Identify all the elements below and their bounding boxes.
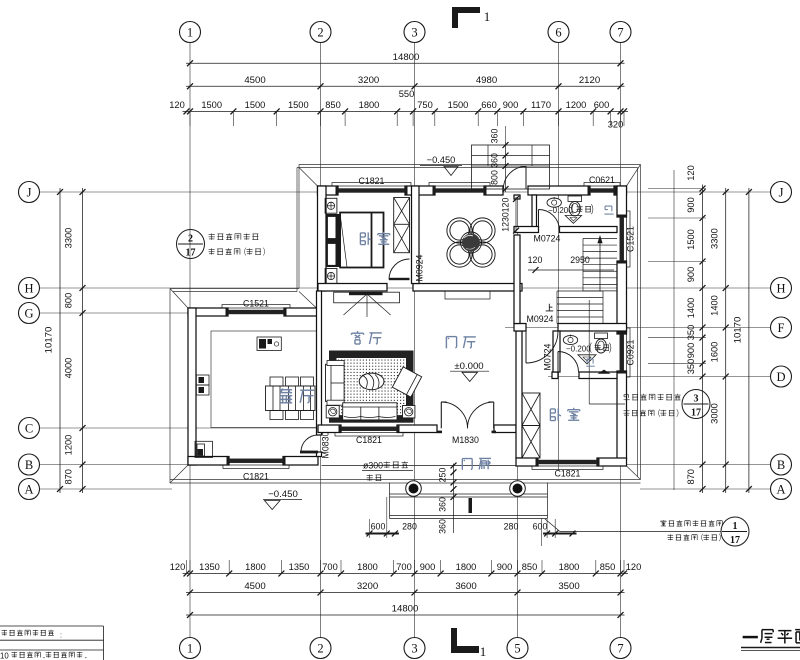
svg-text:120: 120 [528,255,543,265]
svg-text:900: 900 [503,100,519,110]
svg-text:320: 320 [608,120,624,130]
svg-text:850: 850 [522,562,538,572]
svg-text:17: 17 [730,535,740,546]
svg-text:1800: 1800 [245,562,266,572]
svg-text:360: 360 [490,153,500,168]
svg-text:B: B [25,458,33,472]
svg-text:3200: 3200 [357,581,378,592]
svg-text:3: 3 [411,26,417,40]
svg-text:2: 2 [317,642,323,656]
svg-text:4980: 4980 [476,75,497,86]
svg-text:J: J [779,186,784,200]
svg-text:3000: 3000 [710,403,720,424]
svg-text:C1521: C1521 [626,226,636,252]
svg-text:900: 900 [420,562,436,572]
svg-text:360: 360 [438,497,448,512]
svg-text:2: 2 [317,26,323,40]
svg-text:1170: 1170 [531,100,551,110]
svg-text:1350: 1350 [289,562,310,572]
svg-text:900: 900 [686,343,696,359]
svg-text:1400: 1400 [710,295,720,316]
svg-text:1: 1 [187,642,193,656]
svg-text:3300: 3300 [710,228,720,249]
svg-text:−0.200: −0.200 [548,206,573,215]
svg-text:900: 900 [686,197,696,213]
svg-text:120: 120 [626,562,642,572]
svg-text:1200: 1200 [566,100,587,110]
svg-text:C0621: C0621 [589,175,615,185]
svg-text:4500: 4500 [244,75,265,86]
svg-text:2: 2 [188,234,193,245]
svg-text:900: 900 [497,562,513,572]
svg-text:4000: 4000 [64,358,74,379]
svg-text:C1821: C1821 [243,472,269,482]
svg-text:800: 800 [64,293,74,309]
svg-text:14800: 14800 [393,52,420,63]
svg-text:850: 850 [325,100,341,110]
svg-text:700: 700 [322,562,338,572]
svg-text:1500: 1500 [201,100,222,110]
svg-text:2950: 2950 [570,255,590,265]
svg-text:10: 10 [0,652,9,660]
svg-text:360: 360 [490,129,500,144]
svg-text:1500: 1500 [686,229,696,250]
svg-text:M0724: M0724 [543,343,553,370]
svg-text:550: 550 [399,89,415,99]
svg-text:350: 350 [686,359,696,375]
svg-text:1230: 1230 [501,212,511,232]
svg-text:1500: 1500 [448,100,469,110]
svg-text:ø300: ø300 [363,461,383,471]
svg-text:750: 750 [417,100,433,110]
svg-text:D: D [776,370,785,384]
svg-text:1800: 1800 [456,562,477,572]
svg-text:C0921: C0921 [626,339,636,365]
svg-text:3300: 3300 [64,228,74,249]
svg-text:10170: 10170 [733,317,744,344]
svg-text:1800: 1800 [559,562,580,572]
svg-text:A: A [776,483,785,497]
svg-text:−0.450: −0.450 [268,489,298,500]
svg-text:7: 7 [617,642,623,656]
svg-text:280: 280 [504,522,519,532]
svg-text:5: 5 [514,642,520,656]
svg-text:M0924: M0924 [415,254,425,281]
svg-text:350: 350 [686,325,696,341]
svg-text:2120: 2120 [579,75,600,86]
svg-text:1500: 1500 [288,100,309,110]
svg-text:B: B [777,458,785,472]
svg-text:6: 6 [555,26,561,40]
svg-text:M1830: M1830 [452,435,479,445]
svg-text:120: 120 [501,198,511,213]
svg-text:3: 3 [411,642,417,656]
svg-text:−0.450: −0.450 [427,155,456,165]
svg-text::: : [60,633,62,640]
svg-text:3600: 3600 [455,581,476,592]
svg-text:−0.200: −0.200 [566,345,591,354]
svg-text:J: J [27,186,32,200]
svg-text:870: 870 [686,469,696,485]
svg-text:800: 800 [490,170,500,185]
svg-text:900: 900 [686,267,696,283]
svg-text:F: F [778,321,785,335]
svg-text:4500: 4500 [244,581,265,592]
svg-text:1200: 1200 [64,435,74,456]
svg-text:H: H [776,282,785,296]
svg-text:1800: 1800 [359,100,380,110]
svg-text:120: 120 [686,165,696,181]
svg-text:1: 1 [484,9,491,24]
svg-text:250: 250 [438,468,448,483]
svg-text:1: 1 [733,521,738,532]
svg-text:G: G [24,307,33,321]
svg-text:M0830: M0830 [321,431,331,458]
svg-text:280: 280 [402,522,417,532]
svg-text:120: 120 [169,100,185,110]
svg-text:660: 660 [481,100,497,110]
svg-text:1: 1 [480,644,487,659]
svg-text:±0.000: ±0.000 [454,361,483,372]
svg-text:700: 700 [396,562,412,572]
svg-text:1800: 1800 [357,562,378,572]
svg-text:120: 120 [170,562,186,572]
svg-text:600: 600 [594,100,610,110]
svg-text:870: 870 [64,469,74,485]
svg-text:1600: 1600 [710,342,720,363]
svg-text:7: 7 [617,26,623,40]
svg-text:H: H [24,282,33,296]
svg-text:1400: 1400 [686,298,696,319]
svg-text:M0724: M0724 [534,234,561,244]
svg-text:600: 600 [371,522,386,532]
svg-text:600: 600 [533,522,548,532]
svg-text:C1821: C1821 [356,435,382,445]
svg-text:850: 850 [600,562,616,572]
svg-text:17: 17 [691,408,701,419]
svg-text:M0924: M0924 [527,314,554,324]
svg-text:C1521: C1521 [243,299,269,309]
svg-text:10170: 10170 [44,327,55,354]
svg-text:C1821: C1821 [359,176,385,186]
svg-text:3500: 3500 [558,581,579,592]
svg-text:14800: 14800 [392,604,419,615]
svg-text:3200: 3200 [358,75,379,86]
svg-text:17: 17 [186,248,196,259]
svg-text:C: C [25,422,33,436]
svg-text:3: 3 [694,394,699,405]
svg-text:360: 360 [438,519,448,534]
svg-text:1: 1 [187,26,193,40]
svg-text:C1821: C1821 [555,469,581,479]
svg-text:1350: 1350 [199,562,220,572]
svg-text:1500: 1500 [245,100,266,110]
svg-text:A: A [24,483,33,497]
